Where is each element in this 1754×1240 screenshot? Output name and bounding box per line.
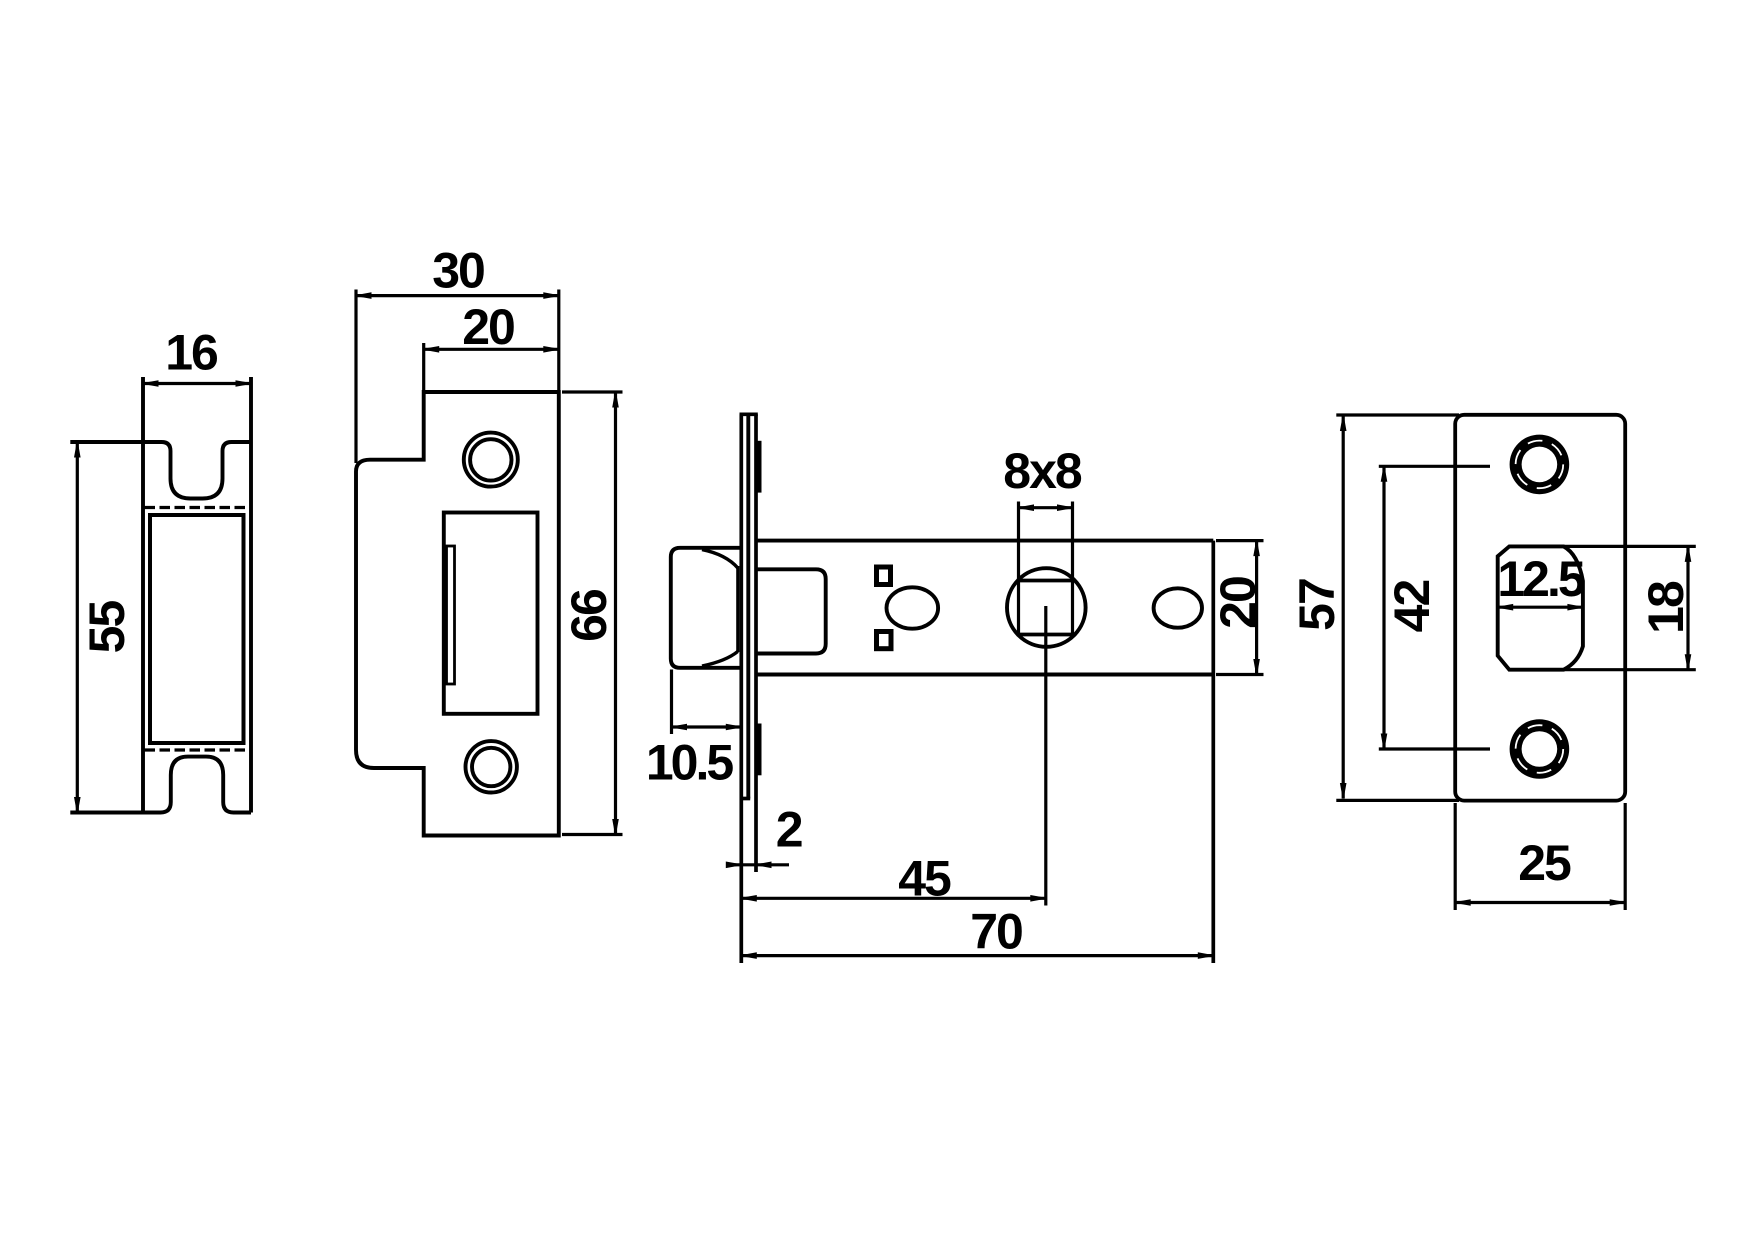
- extension lines faceplate view: [1336, 415, 1696, 910]
- svg-text:45: 45: [898, 851, 951, 907]
- latch bolt bevel edges: [702, 550, 738, 666]
- dimension 57 (faceplate height): [1289, 416, 1346, 799]
- svg-text:42: 42: [1384, 581, 1440, 633]
- strike plate outline: [356, 392, 559, 836]
- small square hole top: [877, 567, 891, 585]
- dimension 12.5 (bolt width): [1497, 551, 1585, 610]
- dimension 16 (case width): [143, 325, 251, 387]
- latch case cross-section outline: [70, 377, 251, 813]
- faceplate fixing tab top: [756, 441, 762, 493]
- svg-text:10.5: 10.5: [646, 735, 734, 791]
- latch case body: [756, 541, 1213, 963]
- svg-text:66: 66: [561, 590, 617, 642]
- svg-text:20: 20: [1210, 577, 1266, 629]
- faceplate fixing tab bottom: [756, 724, 762, 776]
- oval hole right: [1154, 588, 1202, 627]
- faceplate bottom screw hole: [1510, 719, 1570, 779]
- dimension 2 (faceplate thickness): [726, 801, 801, 867]
- strike plate latch opening: [444, 513, 538, 714]
- dimension 42 (hole spacing): [1381, 466, 1440, 749]
- dimension 30 (plate total width): [356, 243, 559, 299]
- strike plate top screw hole: [464, 433, 518, 487]
- dimension 20 (case height): [1210, 541, 1266, 675]
- latch case hidden edge dashed line bottom: [145, 748, 250, 751]
- dimension 66 (plate height): [561, 392, 618, 835]
- svg-text:25: 25: [1518, 835, 1571, 891]
- svg-text:30: 30: [432, 243, 484, 299]
- dimension 70 (case length): [741, 904, 1213, 960]
- spindle square hole 8x8: [1019, 502, 1073, 635]
- bolt tail inside case: [756, 569, 826, 653]
- dimension 25 (faceplate width): [1455, 835, 1625, 905]
- faceplate front view outline: [1455, 415, 1625, 801]
- faceplate top screw hole: [1510, 435, 1570, 495]
- centerline of spindle: [1044, 606, 1047, 906]
- svg-text:57: 57: [1289, 579, 1345, 631]
- latch case inner box: [150, 515, 244, 743]
- extension lines strike plate: [356, 290, 623, 835]
- oval hole left: [887, 587, 939, 628]
- latch bolt through faceplate hole: [1498, 546, 1583, 669]
- svg-text:8x8: 8x8: [1003, 443, 1082, 499]
- svg-text:70: 70: [970, 904, 1022, 960]
- latch bolt: [671, 548, 742, 668]
- svg-text:18: 18: [1638, 581, 1694, 634]
- svg-text:20: 20: [462, 299, 514, 355]
- latch opening inner tab: [447, 546, 455, 684]
- strike plate bottom screw hole: [466, 741, 517, 792]
- svg-text:12.5: 12.5: [1497, 551, 1585, 607]
- faceplate side view: [740, 414, 758, 963]
- latch case hidden edge dashed line top: [145, 506, 250, 509]
- dimension 8x8 (spindle square): [1003, 443, 1082, 510]
- dimension 18 (bolt height): [1638, 546, 1694, 669]
- small square hole bottom: [877, 632, 892, 649]
- dimension 20 (plate width): [424, 299, 559, 355]
- svg-text:16: 16: [165, 325, 217, 381]
- dimension 45 (backset): [741, 851, 1046, 907]
- dimension 55 (case height): [75, 442, 135, 813]
- svg-text:55: 55: [79, 601, 135, 654]
- svg-text:2: 2: [776, 801, 802, 857]
- dimension 10.5 (bolt protrusion): [646, 670, 741, 791]
- spindle follower circle: [1007, 568, 1086, 647]
